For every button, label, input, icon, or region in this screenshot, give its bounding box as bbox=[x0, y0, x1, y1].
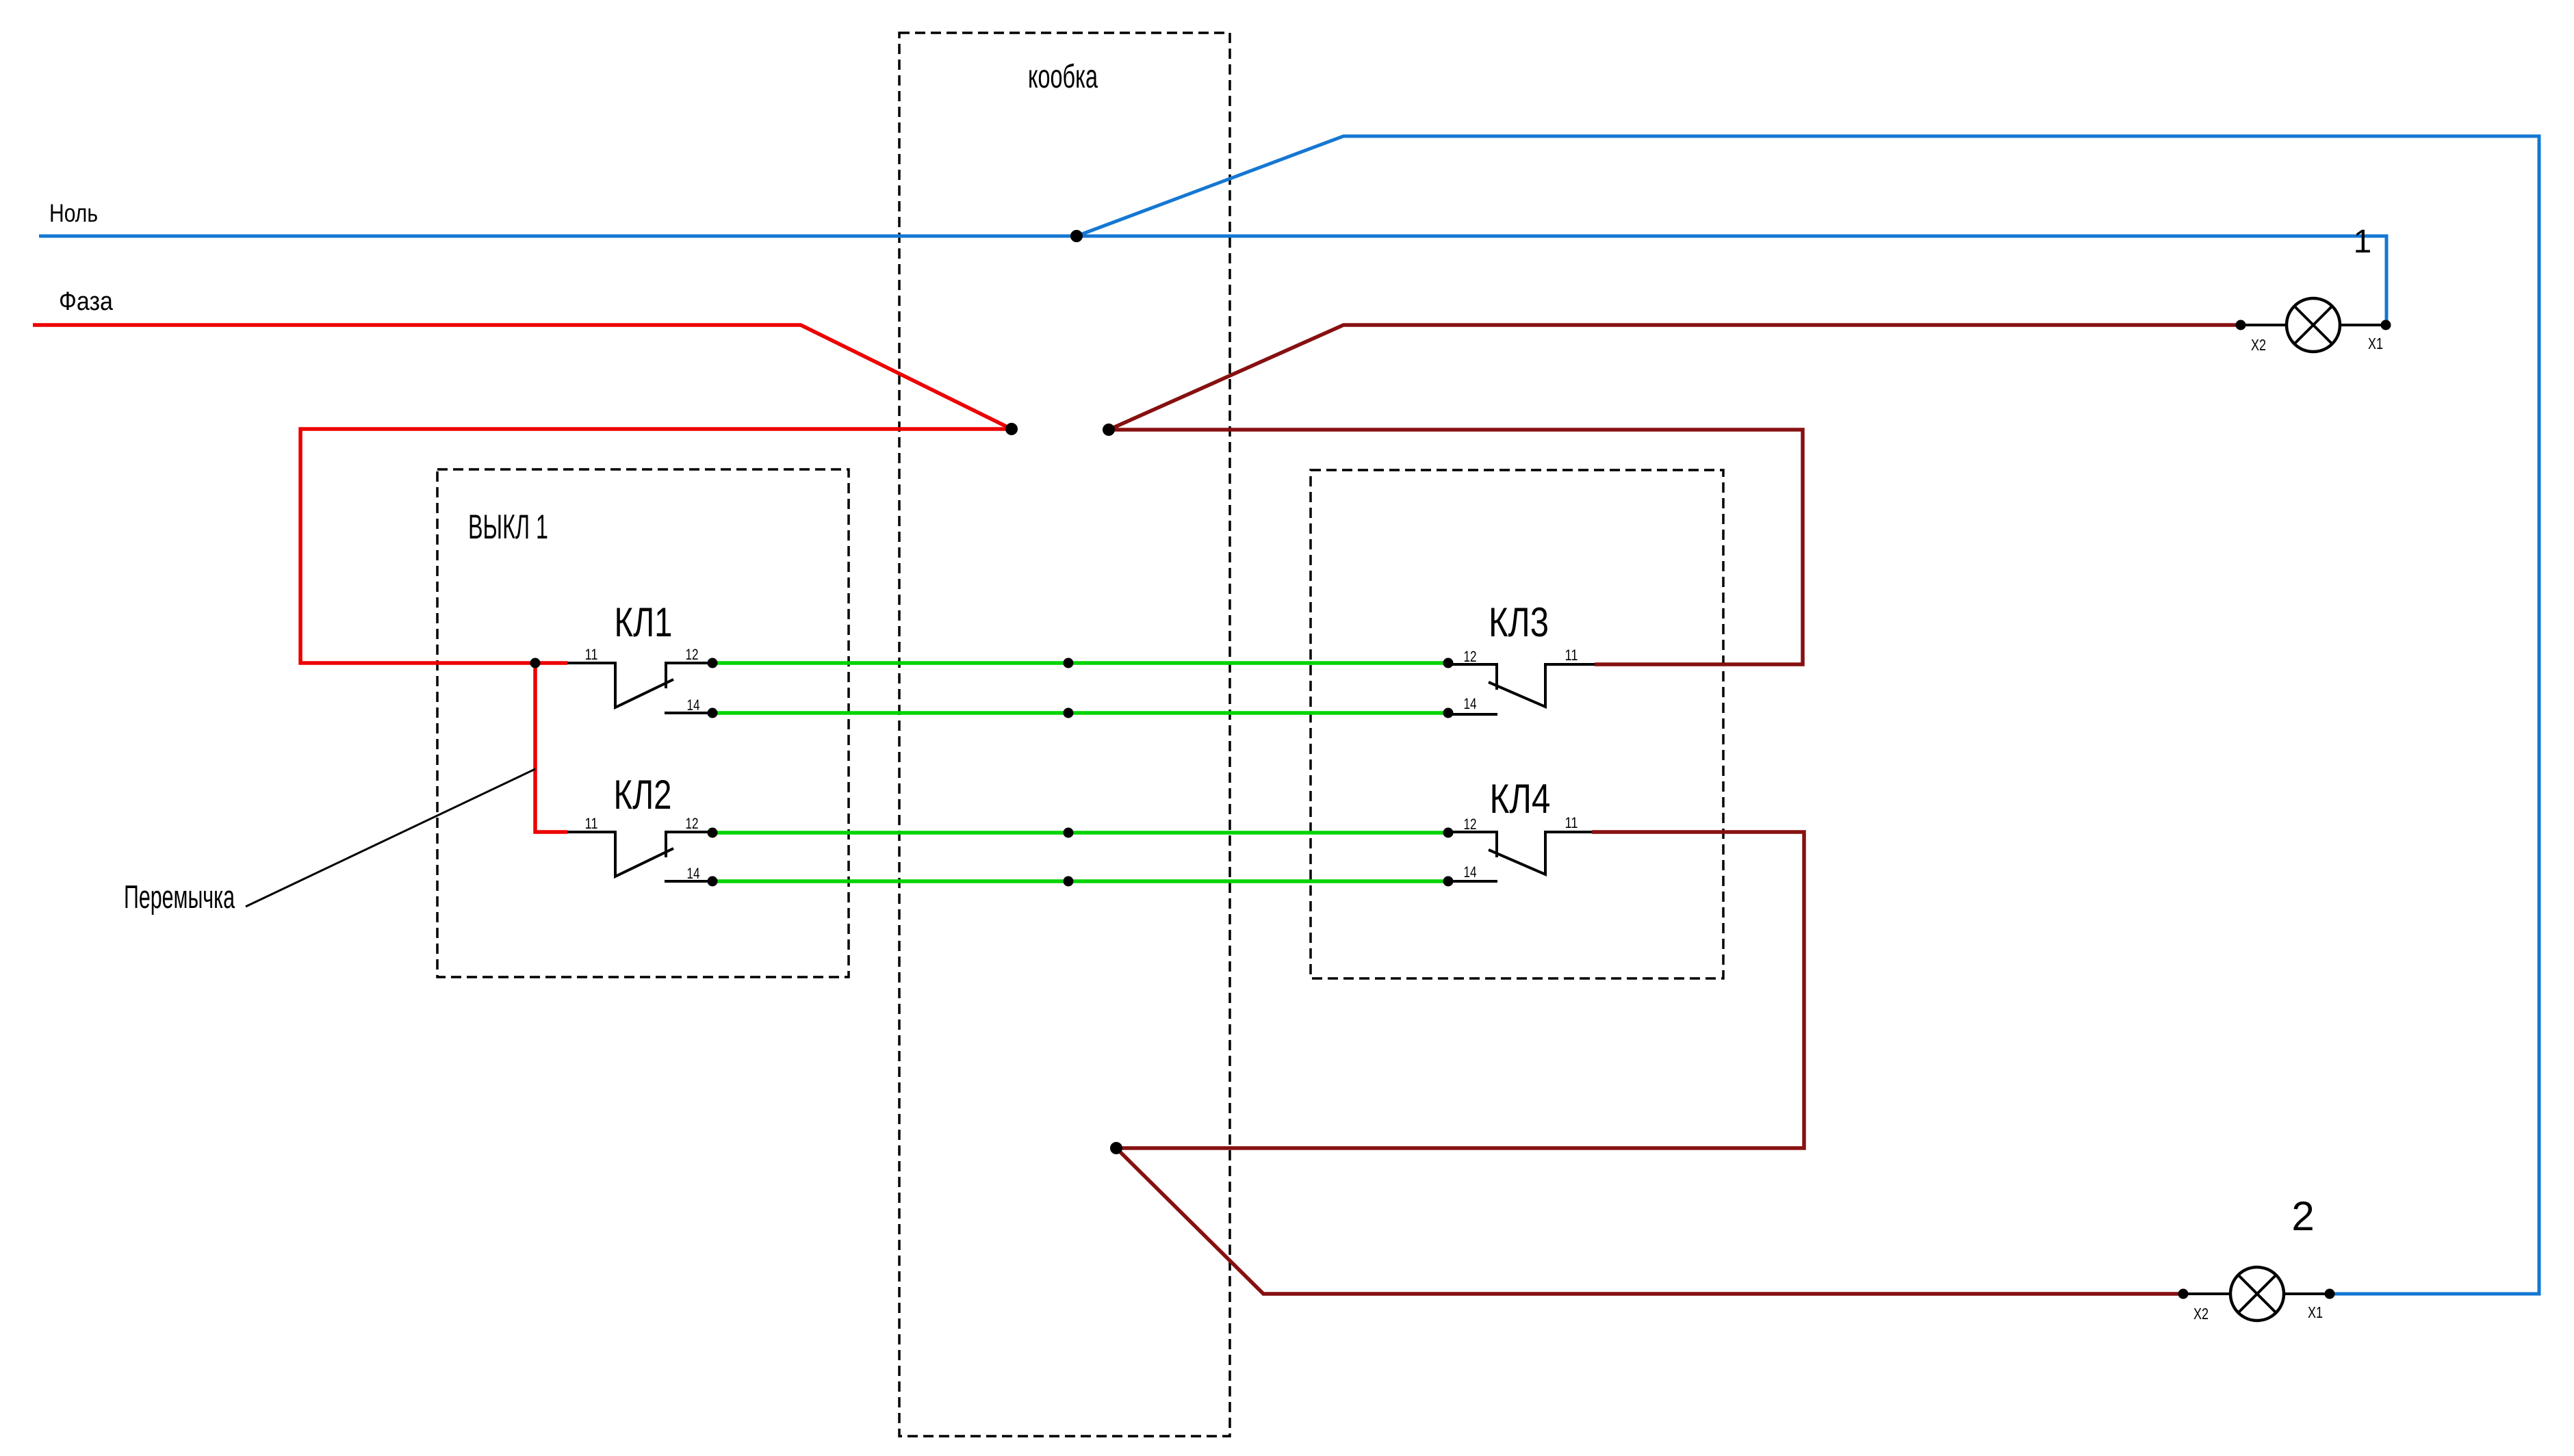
svg-text:X1: X1 bbox=[2368, 335, 2383, 352]
lamp2 terminal X1 bbox=[2325, 1289, 2335, 1299]
wire jumper (peremychka) red: KL1 pin11 to KL2 pin11 bbox=[535, 663, 567, 832]
svg-text:Фаза: Фаза bbox=[59, 287, 114, 316]
svg-text:X2: X2 bbox=[2251, 336, 2266, 354]
nodes on green wires bbox=[708, 658, 1454, 887]
svg-text:12: 12 bbox=[1464, 648, 1477, 665]
node: dark-red junction in koobka (top) bbox=[1103, 424, 1115, 436]
svg-text:14: 14 bbox=[1464, 695, 1477, 712]
jumper pointer line bbox=[246, 769, 535, 907]
svg-text:2: 2 bbox=[2291, 1193, 2314, 1239]
wire phase red: horizontal, diagonal into koobka, back left, down, into KL1 pin 11 bbox=[33, 325, 1012, 663]
svg-text:Перемычка: Перемычка bbox=[124, 879, 235, 915]
wire neutral blue branch: diagonal up, top horizontal, right vertical, bottom to lamp2 X1 bbox=[1077, 136, 2539, 1294]
svg-text:КЛ4: КЛ4 bbox=[1490, 776, 1551, 822]
svg-text:12: 12 bbox=[1464, 816, 1477, 833]
svg-text:11: 11 bbox=[1565, 647, 1578, 664]
node: dark-red junction in koobka (bottom) bbox=[1110, 1142, 1122, 1154]
lamp1 terminal X1 bbox=[2381, 320, 2391, 330]
svg-text:X1: X1 bbox=[2308, 1303, 2323, 1321]
switch box 2 dashed outline bbox=[1311, 470, 1723, 978]
node: phase junction in koobka bbox=[1005, 423, 1018, 435]
svg-text:ВЫКЛ 1: ВЫКЛ 1 bbox=[468, 508, 548, 546]
svg-text:1: 1 bbox=[2354, 224, 2372, 260]
lamp2 terminal X2 bbox=[2178, 1289, 2189, 1299]
wire green KL2.14 - KL4.14 bbox=[712, 879, 1448, 883]
svg-text:12: 12 bbox=[686, 815, 699, 832]
wire neutral blue: main horizontal, corner down to lamp1 X1 bbox=[39, 236, 2386, 325]
svg-text:11: 11 bbox=[585, 646, 598, 663]
svg-text:X2: X2 bbox=[2193, 1305, 2209, 1323]
switch box VYKL1 dashed outline bbox=[437, 469, 849, 977]
svg-text:КЛ2: КЛ2 bbox=[614, 772, 672, 818]
svg-text:Ноль: Ноль bbox=[49, 199, 98, 227]
svg-text:КЛ1: КЛ1 bbox=[615, 599, 673, 645]
svg-text:КЛ3: КЛ3 bbox=[1489, 599, 1549, 645]
node: jumper junction at KL1 pin 11 bbox=[530, 658, 541, 668]
junction box (koobka) dashed outline bbox=[899, 33, 1230, 1436]
wire green KL1.12 - KL3.12 bbox=[712, 661, 1448, 665]
svg-text:11: 11 bbox=[1565, 814, 1578, 831]
node: neutral junction in koobka bbox=[1070, 230, 1083, 242]
svg-text:12: 12 bbox=[686, 646, 699, 663]
wire green KL2.12 - KL4.12 bbox=[712, 831, 1448, 835]
lamp1 terminal X2 bbox=[2236, 320, 2246, 330]
svg-text:кообка: кообка bbox=[1028, 59, 1098, 95]
svg-text:14: 14 bbox=[1464, 863, 1477, 881]
svg-text:11: 11 bbox=[585, 815, 598, 832]
svg-text:14: 14 bbox=[687, 865, 700, 882]
wire green KL1.14 - KL3.14 bbox=[712, 711, 1448, 715]
wire dark-red lamp1: from koobka junction diagonal up to horizontal to lamp1 X2, and branch to KL3 pin 11 bbox=[1109, 325, 2241, 664]
svg-text:14: 14 bbox=[687, 697, 700, 714]
wire dark-red lamp2: from KL4 pin 11 right, down, left to koobka junction, diagonal to lamp2 X2 bbox=[1116, 832, 2183, 1294]
